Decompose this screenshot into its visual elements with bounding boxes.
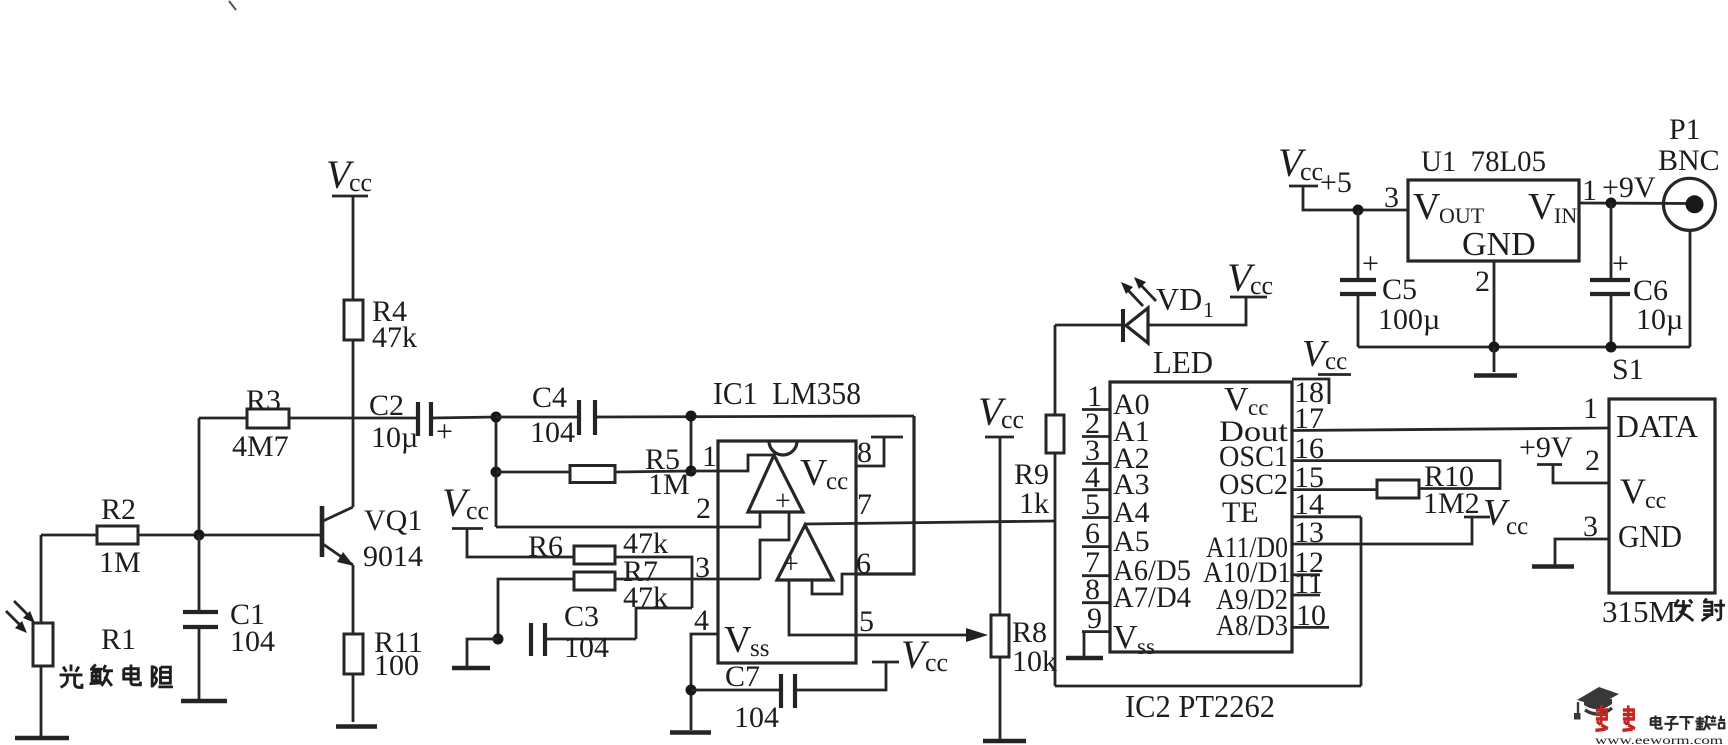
label Vcc inside module: [1620, 471, 1666, 514]
svg-text:8: 8: [857, 436, 872, 469]
pin 1 stub: [1082, 408, 1110, 411]
op-amp U1A triangle: [748, 455, 803, 512]
power Vcc (+5 output): [1278, 140, 1323, 186]
IC1 notch: [769, 441, 797, 455]
wire IN2+ riser to pin5: [789, 580, 856, 635]
power +9V bar to pin2: [1537, 465, 1609, 484]
svg-text:C2: C2: [369, 389, 404, 422]
pin 2 stub: [1082, 435, 1110, 438]
power Vcc (R8 top): [978, 389, 1024, 437]
stray scan mark top left: [229, 1, 236, 10]
wire Vcc to R6: [467, 529, 574, 558]
wire C7 right to Vcc: [795, 662, 886, 690]
label C1 104: [230, 598, 275, 658]
node junction C3/R7/ground: [493, 634, 504, 645]
power Vcc (above R4): [326, 152, 372, 197]
wire C3 step to pin3 node: [636, 608, 692, 639]
label R10 1M2: [1423, 460, 1480, 520]
svg-text:100µ: 100µ: [1378, 303, 1440, 336]
LED VD1: [1123, 308, 1148, 343]
pin 12 stub: [1292, 573, 1320, 576]
svg-text:3: 3: [1384, 181, 1399, 214]
svg-text:11: 11: [1294, 567, 1323, 600]
label R5 1M: [645, 443, 690, 501]
svg-text:+: +: [1612, 247, 1629, 280]
svg-text:R1: R1: [101, 623, 136, 656]
wire riser to pin6: [856, 416, 914, 574]
resistor R2: [97, 526, 138, 544]
wire pin2 row (node A to IN1-): [496, 512, 760, 527]
svg-text:cc: cc: [826, 468, 848, 495]
svg-text:4M7: 4M7: [232, 430, 289, 463]
ground (C3 left): [452, 666, 490, 671]
wire LED to Vcc: [1148, 297, 1246, 325]
resistor R9: [1046, 415, 1064, 453]
wire U1 pin1 to BNC: [1579, 202, 1692, 205]
wire LED row left: [1055, 324, 1123, 327]
capacitor C7: [781, 674, 795, 708]
pin 3 stub: [1082, 462, 1110, 465]
svg-text:3: 3: [1583, 510, 1598, 543]
svg-text:A8/D3: A8/D3: [1216, 609, 1288, 642]
pin 18 bracket to Vcc: [1292, 375, 1351, 405]
label R3 4M7: [232, 384, 289, 463]
wire C2 to node A: [431, 417, 496, 418]
svg-text:cc: cc: [925, 648, 948, 677]
svg-text:VQ1: VQ1: [364, 504, 422, 537]
svg-text:10: 10: [1296, 599, 1326, 632]
transmitter module box: [1609, 399, 1715, 593]
resistor R6: [574, 546, 615, 564]
wire pin9 to ground: [1083, 632, 1086, 656]
svg-text:100: 100: [374, 649, 419, 682]
svg-text:1: 1: [1583, 392, 1598, 425]
label VQ1 9014: [363, 504, 423, 573]
power Vcc (pin18): [1302, 333, 1347, 375]
wire C4 row: [496, 416, 579, 419]
resistor R5: [570, 466, 615, 483]
capacitor C5 (electrolytic): [1340, 247, 1379, 294]
svg-text:ss: ss: [1137, 634, 1155, 659]
svg-text:cc: cc: [1001, 405, 1024, 434]
svg-text:DATA: DATA: [1616, 408, 1698, 444]
svg-text:+: +: [1362, 247, 1379, 280]
wire C5 riser: [1357, 210, 1360, 279]
capacitor C2 (electrolytic): [418, 402, 453, 448]
pin 10 stub: [1292, 626, 1329, 629]
wire R3 row / C2 left: [199, 417, 247, 420]
svg-text:S1: S1: [1612, 353, 1644, 386]
label Vcc inside IC2: [1224, 381, 1268, 420]
wire TE right riser: [1360, 517, 1363, 686]
ground (rail): [1474, 373, 1517, 378]
label VIN: [1528, 186, 1577, 228]
pin 9 stub: [1082, 630, 1110, 633]
node junction rail/C6: [1606, 342, 1617, 353]
svg-text:2: 2: [696, 492, 711, 525]
wire R9 top to LED row: [1054, 325, 1057, 415]
ground (below C1): [181, 699, 227, 704]
svg-text:www.eeworm.com: www.eeworm.com: [1595, 733, 1724, 745]
label C4 104: [530, 381, 575, 449]
svg-text:R6: R6: [528, 530, 563, 563]
pin 8 stub: [1082, 601, 1110, 604]
resistor R7: [574, 572, 615, 590]
svg-text:GND: GND: [1618, 518, 1682, 554]
label R8 10k: [1012, 616, 1057, 678]
svg-text:315M: 315M: [1602, 594, 1676, 629]
svg-text:C3: C3: [564, 600, 599, 633]
svg-text:VD: VD: [1156, 281, 1202, 317]
wire pin17 Dout to DATA: [1292, 428, 1609, 431]
svg-text:V: V: [1113, 619, 1138, 656]
wire pin13 to Vcc: [1292, 517, 1472, 544]
wire Vcc to U1 pin3: [1303, 186, 1408, 210]
wire pin15 OSC2 to R10 left: [1292, 488, 1377, 491]
svg-text:104: 104: [734, 701, 779, 734]
svg-text:104: 104: [564, 631, 609, 664]
svg-text:OUT: OUT: [1439, 203, 1485, 228]
resistor R4: [344, 300, 363, 340]
svg-text:A7/D4: A7/D4: [1113, 581, 1191, 614]
svg-text:13: 13: [1294, 516, 1324, 549]
capacitor C3: [531, 623, 545, 656]
wire node to C1: [198, 535, 201, 612]
regulator U1 box: [1408, 180, 1579, 261]
svg-text:10k: 10k: [1012, 645, 1057, 678]
svg-text:P1: P1: [1669, 113, 1701, 146]
wire C3 left to ground: [467, 639, 498, 666]
wire IN1+ route to pin3: [760, 512, 789, 579]
wire R4 to C2 row junction down to VQ1 collector: [352, 340, 355, 507]
ground (below R8): [983, 739, 1026, 744]
ground (module): [1532, 564, 1574, 569]
power Vcc (R6 bias): [442, 480, 489, 529]
pin 11 stub: [1292, 594, 1320, 597]
node junction C7/gnd: [686, 685, 697, 696]
wire R1 top lead: [40, 535, 43, 623]
label Vcc inside IC1: [800, 452, 848, 495]
wire node A riser: [495, 417, 498, 527]
logo chongchong (red worm chars): [1595, 705, 1635, 730]
node junction rail/pin2: [1489, 342, 1500, 353]
svg-text:2: 2: [1475, 265, 1490, 298]
svg-text:2: 2: [1585, 444, 1600, 477]
node junction C4/pin6 net: [686, 411, 697, 422]
svg-text:V: V: [1528, 186, 1556, 228]
svg-text:1M2: 1M2: [1423, 487, 1480, 520]
svg-text:+: +: [436, 415, 453, 448]
label C5 100u: [1378, 273, 1440, 336]
node A junction (R5 left): [491, 467, 502, 478]
capacitor C1: [183, 612, 218, 627]
IC2 box: [1110, 382, 1292, 652]
svg-text:+5: +5: [1320, 166, 1352, 199]
svg-text:104: 104: [230, 625, 275, 658]
wire BNC down to rail: [1689, 231, 1692, 347]
svg-text:9: 9: [1087, 602, 1102, 635]
resistor R10: [1377, 480, 1419, 498]
transistor VQ1 base bar: [320, 506, 325, 557]
svg-text:cc: cc: [1506, 513, 1528, 540]
svg-text:V: V: [800, 452, 828, 494]
potentiometer R8: [991, 615, 1009, 657]
label Vss inside IC1: [724, 619, 769, 662]
wire pin5 lead with wiper arrow to R8: [856, 628, 988, 642]
wire R2 left lead: [41, 534, 97, 537]
label P1 BNC: [1658, 113, 1720, 177]
wire R1 bottom: [40, 666, 43, 736]
wire R8 bottom: [999, 657, 1002, 739]
wire pin1 lead and step to op-amp A apex: [691, 455, 774, 471]
label fa she glyphs: [1674, 599, 1725, 621]
wire Vcc to R4: [352, 196, 355, 300]
svg-text:V: V: [724, 619, 752, 661]
ground (below R11): [336, 724, 377, 729]
svg-text:+: +: [783, 549, 799, 580]
capacitor C6 (electrolytic): [1590, 247, 1630, 294]
wire R5 right: [615, 471, 691, 472]
label VOUT: [1413, 186, 1485, 228]
wire riser R3 to base node: [198, 418, 201, 535]
svg-text:4: 4: [694, 604, 709, 637]
light arrows into R1: [6, 601, 35, 633]
label C6 10u: [1633, 274, 1683, 336]
wire IN2- bracket from pin6: [812, 574, 856, 594]
svg-text:9014: 9014: [363, 540, 423, 573]
power Vcc (pin13): [1464, 492, 1528, 540]
pin 4 stub: [1082, 488, 1110, 491]
power Vcc (LED): [1227, 255, 1273, 300]
label C2 10u: [369, 389, 418, 454]
svg-text:6: 6: [856, 547, 871, 580]
wire pin7 output row: [805, 521, 1055, 524]
power Vcc (C7 right): [872, 632, 948, 677]
wire pin14 TE stub: [1292, 515, 1361, 518]
svg-text:1M: 1M: [99, 546, 141, 579]
svg-text:C4: C4: [532, 381, 567, 414]
label R2 1M: [99, 493, 141, 579]
ground (pin9 Vss): [1066, 656, 1103, 661]
pin 6 stub: [1082, 545, 1110, 548]
svg-text:5: 5: [859, 605, 874, 638]
svg-text:IC2 PT2262: IC2 PT2262: [1125, 688, 1275, 724]
svg-text:47k: 47k: [372, 321, 417, 354]
svg-text:cc: cc: [349, 168, 372, 197]
svg-text:104: 104: [530, 416, 575, 449]
wire ground rail: [1358, 346, 1690, 349]
label C3 104: [564, 600, 609, 664]
wire C6 bottom: [1610, 294, 1613, 347]
svg-text:17: 17: [1294, 402, 1324, 435]
svg-text:R3: R3: [246, 384, 281, 417]
wire pin3 to ground: [1555, 539, 1609, 565]
label R11 100: [374, 626, 423, 682]
label guangmin dianzu glyphs: [60, 665, 173, 688]
transistor VQ1 emitter with arrow: [323, 544, 354, 566]
svg-text:+9V: +9V: [1519, 431, 1573, 464]
wire R3 to C2: [289, 417, 418, 420]
BNC connector P1: [1664, 178, 1716, 230]
op-amp IC1 box: [718, 441, 856, 663]
wire R7 left riser to C3 node: [498, 579, 574, 639]
svg-text:cc: cc: [1325, 348, 1347, 375]
pin 7 stub: [1082, 574, 1110, 577]
node junction R5/pin1: [686, 466, 697, 477]
svg-text:U1 78L05: U1 78L05: [1421, 145, 1546, 178]
node junction C5 top: [1353, 205, 1364, 216]
svg-text:V: V: [1224, 381, 1249, 418]
label C7 104: [725, 660, 779, 734]
logo text dianzi xiazai zhan: [1651, 715, 1725, 730]
svg-text:1M: 1M: [648, 468, 690, 501]
svg-text:ss: ss: [750, 635, 769, 662]
node A junction (C2/C4): [491, 412, 502, 423]
svg-text:1: 1: [702, 440, 717, 473]
wire OUT1 riser: [690, 416, 693, 471]
wire C5 bottom: [1357, 294, 1360, 347]
node junction C6 top: [1606, 198, 1617, 209]
svg-text:BNC: BNC: [1658, 144, 1720, 177]
svg-text:cc: cc: [1250, 271, 1273, 300]
svg-text:GND: GND: [1462, 226, 1536, 263]
svg-text:1: 1: [1203, 297, 1214, 322]
wire R9 bottom / TE riser: [1054, 453, 1057, 686]
wire pin8 Vcc bracket: [856, 437, 903, 466]
label Vss inside IC2: [1113, 619, 1155, 659]
svg-text:LED: LED: [1153, 344, 1213, 380]
svg-text:1: 1: [1582, 174, 1597, 207]
wire C7 left: [691, 689, 781, 692]
svg-text:10µ: 10µ: [371, 421, 418, 454]
wire TE bottom run: [1055, 685, 1361, 688]
svg-text:R2: R2: [101, 493, 136, 526]
label 315M + fa she: [1602, 594, 1676, 629]
wire C3 right: [545, 638, 636, 641]
wire C4 right to corner: [595, 416, 914, 417]
wire R2 to VQ1 base: [138, 534, 321, 537]
wire Vcc to R8: [999, 437, 1002, 615]
wire emitter to R11: [352, 565, 355, 634]
photoresistor R1: [33, 623, 53, 666]
svg-text:TE: TE: [1222, 496, 1259, 529]
wire pin16 OSC1 to R10 right: [1292, 461, 1500, 489]
capacitor C4: [579, 400, 595, 435]
svg-text:10µ: 10µ: [1636, 303, 1683, 336]
resistor R11: [344, 634, 363, 674]
svg-text:7: 7: [857, 488, 872, 521]
wire R5 row left: [496, 471, 570, 474]
svg-text:V: V: [1620, 471, 1646, 511]
svg-text:3: 3: [695, 551, 710, 584]
op-amp U1B triangle: [777, 525, 833, 580]
svg-text:V: V: [1413, 186, 1441, 228]
wire U1 pin2 riser: [1493, 261, 1496, 347]
svg-text:IC1 LM358: IC1 LM358: [713, 375, 861, 411]
label R4 47k: [372, 295, 417, 354]
wire C1 bottom: [198, 627, 201, 699]
pin 5 stub: [1082, 516, 1110, 519]
wire R6 right to pin3: [615, 557, 692, 608]
label VD1: [1156, 281, 1214, 322]
label R9 1k: [1014, 458, 1049, 520]
svg-text:1k: 1k: [1019, 487, 1049, 520]
wire C6 riser: [1610, 203, 1613, 279]
wire rail ground stub: [1493, 347, 1496, 372]
node junction base: [194, 530, 205, 541]
svg-text:C5: C5: [1382, 273, 1417, 306]
LED VD1 light arrows: [1121, 277, 1156, 306]
svg-text:C7: C7: [725, 660, 760, 693]
svg-text:cc: cc: [1645, 488, 1666, 514]
wire pin4 lead riser: [691, 634, 718, 730]
ground (below pin4): [670, 730, 711, 735]
ground (below R1): [15, 736, 69, 741]
logo graduation cap: [1574, 687, 1619, 720]
wire R7 right / pin3 row: [615, 578, 760, 581]
svg-text:cc: cc: [466, 496, 489, 525]
transistor VQ1 collector: [323, 507, 353, 521]
wire R11 bottom: [352, 674, 355, 722]
svg-text:IN: IN: [1554, 203, 1577, 228]
resistor R3: [247, 409, 289, 428]
